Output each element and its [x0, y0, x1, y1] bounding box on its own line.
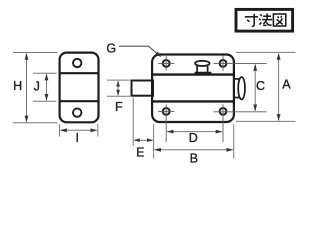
dimension J arrow line	[46, 74, 48, 100]
dimension B arrow line	[155, 149, 233, 151]
svg-text:D: D	[189, 131, 198, 145]
dimension A extension bottom	[236, 120, 296, 122]
svg-text:F: F	[115, 100, 123, 114]
svg-text:A: A	[282, 78, 291, 92]
dimension H extension top	[13, 52, 58, 54]
svg-text:B: B	[190, 151, 198, 165]
bolt tip cylinder bottom	[234, 97, 240, 99]
plate upper line	[59, 72, 99, 74]
dimension I arrow line	[61, 129, 97, 131]
knob right leg	[207, 66, 209, 75]
dimension J extension bottom	[33, 100, 57, 102]
screw hole bottom-right	[220, 108, 227, 115]
plate top hole	[73, 59, 81, 67]
svg-text:I: I	[76, 131, 79, 145]
dimension F extension top	[107, 79, 130, 81]
screw hole top-left	[163, 60, 170, 67]
plate lower line	[59, 100, 99, 102]
dimension D arrow line	[167, 131, 222, 133]
dimension E arrow line	[134, 139, 152, 141]
title box border	[236, 9, 293, 31]
plate bottom hole	[73, 108, 81, 116]
bolt tip cylinder top	[234, 78, 240, 80]
svg-text:H: H	[13, 79, 22, 93]
kanji 図	[273, 14, 285, 26]
knob cap	[195, 61, 210, 66]
body lower line	[152, 100, 234, 102]
plate outline	[60, 53, 99, 123]
bolt tip flange	[238, 77, 245, 99]
dimension I extension right	[97, 124, 99, 136]
dimension B extension right	[233, 124, 235, 158]
dimension A arrow line	[278, 54, 280, 121]
screw hole top-right	[220, 60, 227, 67]
dimension C arrow line	[254, 64, 256, 110]
bolt shaft left	[132, 81, 154, 96]
kanji 法	[259, 13, 272, 25]
shared extension E/B	[153, 124, 155, 158]
dimension H arrow line	[26, 54, 28, 122]
dimension F extension bottom	[107, 95, 130, 97]
screw hole bottom-left	[163, 108, 170, 115]
svg-text:E: E	[136, 145, 144, 159]
svg-text:G: G	[106, 42, 116, 56]
body upper line	[152, 73, 234, 75]
kanji 寸	[245, 14, 258, 27]
dimension E extension left	[132, 98, 134, 146]
svg-text:J: J	[34, 79, 40, 93]
knob base	[195, 72, 212, 74]
dimension F arrow line	[117, 81, 119, 95]
dimension H extension bottom	[13, 122, 58, 124]
svg-text:C: C	[256, 79, 265, 93]
dimension J extension top	[33, 72, 57, 74]
G leader line	[119, 46, 160, 56]
dimension A extension top	[236, 51, 296, 53]
dimension I extension left	[59, 124, 61, 136]
latch body outline	[152, 55, 234, 123]
knob left leg	[196, 66, 198, 75]
